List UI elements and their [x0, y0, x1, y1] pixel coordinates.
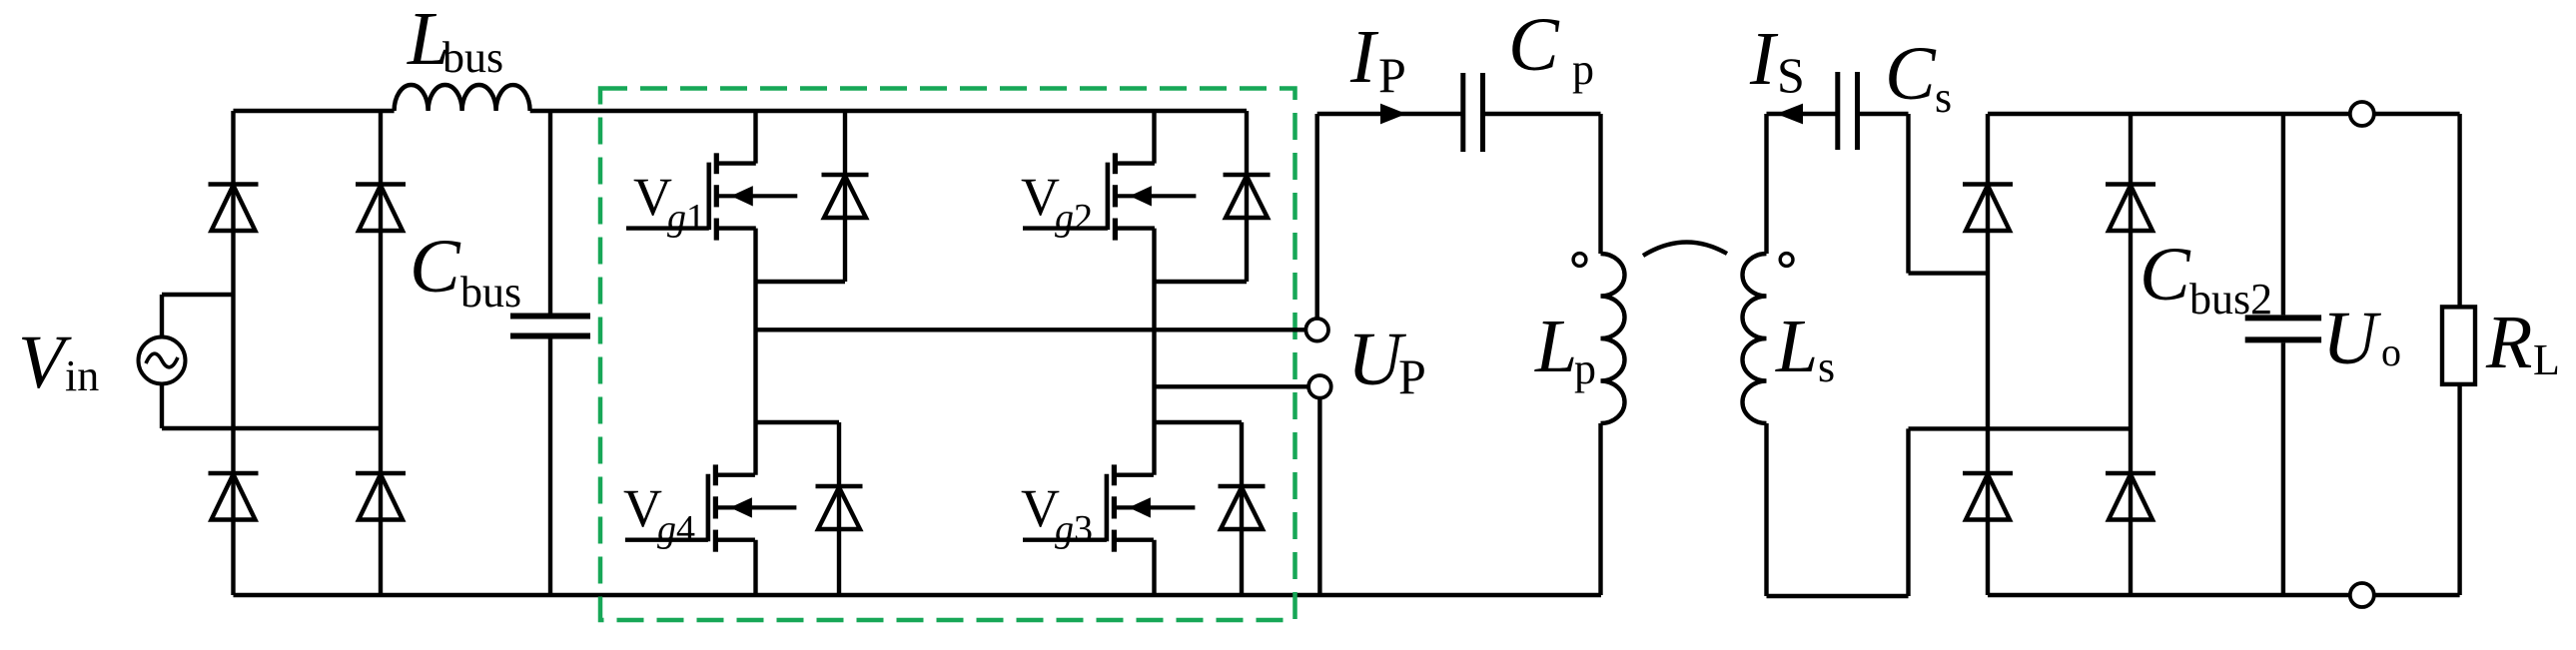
wire output rectifier right leg: [2129, 114, 2133, 595]
node terminal UP+ (upper output circle): [1305, 319, 1328, 341]
wire Q2 body diode leg: [1245, 111, 1249, 282]
wire Q4 gate lead: [625, 538, 708, 542]
diode D7 Q4 body diode: [816, 486, 863, 529]
svg-text:p: p: [1574, 344, 1596, 393]
wire upper terminal to Ip wire: [1317, 114, 1461, 319]
inductor Lp primary coil: [1601, 254, 1625, 423]
diode D11 output rectifier lower-left: [1963, 473, 2013, 520]
node output terminal +: [2350, 102, 2374, 126]
wire Q3 diode top link: [1155, 422, 1243, 595]
node terminal UP- (lower output circle): [1308, 375, 1331, 398]
wire upper output (left leg to terminal): [756, 327, 1306, 331]
wire source top lead: [162, 295, 234, 337]
wire Ls top lead: [1767, 114, 1838, 254]
wire top rail middle: [530, 109, 1247, 113]
resistor RL load: [2442, 114, 2475, 595]
wire Q1 source to diode link: [756, 229, 846, 282]
node Lp polarity dot: [1573, 254, 1586, 267]
coupling arc between Lp and Ls: [1643, 242, 1727, 256]
wire Q1 drain to top rail: [753, 111, 757, 164]
wire left phase leg: [753, 282, 757, 475]
wire Q3 gate lead: [1023, 538, 1107, 542]
wire Cp to Lp top: [1483, 114, 1601, 254]
svg-text:C: C: [1885, 32, 1937, 116]
wire Q1 body diode leg: [843, 111, 847, 282]
capacitor Cs: [1838, 72, 1858, 150]
wire Q2 gate lead: [1023, 226, 1108, 230]
wire Q2 source to diode link: [1155, 229, 1248, 282]
wire lower terminal to bottom rail: [1317, 398, 1321, 595]
diode D6 Q2 body diode: [1224, 175, 1271, 218]
capacitor Cbus2: [2245, 114, 2321, 595]
wire right phase leg: [1152, 282, 1156, 475]
transistor Q4 (Vg4, lower-left MOSFET): [708, 464, 797, 551]
svg-text:I: I: [1349, 15, 1379, 99]
diode D9 output rectifier upper-left: [1963, 185, 2013, 232]
wire output bottom rail: [1988, 593, 2460, 597]
diode D4 input bridge lower-right: [356, 473, 406, 520]
inductor Ls secondary coil: [1743, 254, 1767, 423]
wire Q1 gate lead: [626, 226, 709, 230]
diode D1 input bridge upper-left: [209, 185, 259, 232]
diode D3 input bridge lower-left: [209, 473, 259, 520]
wire Q4 diode top link: [756, 422, 840, 595]
svg-text:o: o: [2381, 329, 2401, 374]
svg-text:R: R: [2485, 301, 2532, 384]
svg-text:L: L: [2533, 335, 2560, 384]
svg-text:bus: bus: [442, 33, 503, 82]
svg-text:C: C: [1508, 3, 1560, 87]
svg-text:p: p: [1572, 45, 1594, 94]
wire bottom rail: [234, 593, 1602, 597]
svg-text:in: in: [65, 351, 99, 400]
svg-text:I: I: [1749, 17, 1779, 101]
wire input bridge left leg: [231, 111, 235, 595]
AC source Vin: [139, 337, 186, 384]
capacitor Cbus: [510, 111, 590, 595]
svg-text:bus: bus: [460, 268, 521, 317]
svg-text:P: P: [1398, 348, 1426, 404]
svg-text:g3: g3: [1055, 508, 1093, 550]
transistor Q3 (Vg3, lower-right MOSFET): [1107, 464, 1196, 551]
current arrow IS: [1777, 104, 1804, 125]
capacitor Cp: [1463, 73, 1483, 152]
current arrow IP: [1380, 104, 1406, 125]
svg-text:g4: g4: [657, 508, 695, 550]
svg-text:g1: g1: [667, 197, 705, 239]
svg-text:s: s: [1818, 342, 1835, 391]
wire source bottom lead: [162, 384, 381, 429]
wire Ls bottom to rectifier lower input: [1767, 423, 2132, 596]
svg-text:g2: g2: [1055, 197, 1093, 239]
wire lower output (right leg to terminal): [1155, 384, 1309, 388]
node output terminal -: [2350, 583, 2374, 607]
svg-text:V: V: [18, 321, 72, 404]
svg-text:U: U: [2322, 297, 2381, 380]
wire input bridge right leg: [379, 111, 383, 595]
diode D2 input bridge upper-right: [356, 185, 406, 232]
wire Lp bottom to rail: [1598, 423, 1602, 595]
transistor Q2 (Vg2, upper-right MOSFET): [1108, 153, 1197, 240]
svg-text:L: L: [1534, 305, 1577, 388]
wire Cs to rectifier upper input: [1858, 114, 1989, 274]
inductor Lbus: [395, 85, 530, 111]
wire output rectifier left leg: [1986, 114, 1990, 595]
transistor Q1 (Vg1, upper-left MOSFET): [709, 153, 798, 240]
wire Q3 source to bottom rail: [1152, 540, 1156, 595]
diode D8 Q3 body diode: [1219, 486, 1266, 529]
svg-text:s: s: [1935, 73, 1952, 122]
wire Q4 source to bottom rail: [753, 540, 757, 595]
wire top rail left: [234, 109, 395, 113]
svg-text:L: L: [1775, 305, 1818, 388]
diode D12 output rectifier lower-right: [2106, 473, 2155, 520]
diode D10 output rectifier upper-right: [2106, 185, 2155, 232]
svg-text:P: P: [1378, 47, 1406, 103]
inverter outline (green dashed box): [600, 89, 1295, 621]
svg-text:C: C: [2140, 233, 2191, 317]
wire Q2 drain to top rail: [1152, 111, 1156, 164]
diode D5 Q1 body diode: [822, 175, 869, 218]
svg-text:C: C: [410, 225, 461, 309]
node Ls polarity dot: [1780, 254, 1793, 267]
svg-text:S: S: [1777, 47, 1805, 103]
svg-text:bus2: bus2: [2189, 275, 2272, 324]
wire output top rail: [1988, 112, 2460, 116]
